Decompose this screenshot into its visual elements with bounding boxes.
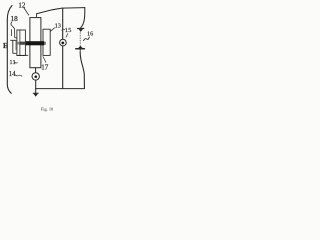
- label 13: [55, 22, 61, 29]
- label 17: [41, 64, 49, 72]
- wire below meter 15: [62, 46, 64, 89]
- svg-text:15: 15: [65, 27, 72, 34]
- wire stub upper-left of plates: [15, 29, 17, 38]
- leader line to 12: [24, 8, 29, 15]
- meter 15 needle: [61, 42, 64, 45]
- leader tilde to 14: [15, 75, 22, 77]
- ground arrow: [33, 94, 38, 97]
- label 16: [87, 31, 93, 38]
- brace (left figure bracket): [7, 6, 12, 94]
- svg-text:13: 13: [55, 22, 61, 29]
- label E: [3, 41, 8, 50]
- wire column to meter 14: [35, 68, 37, 73]
- svg-text:16: 16: [87, 31, 93, 38]
- label 11: [9, 59, 15, 66]
- leader line 15 to meter: [66, 34, 68, 38]
- meter 14 (circle): [32, 73, 39, 80]
- label 12: [18, 1, 26, 9]
- label 14: [9, 71, 16, 78]
- plate divider: [19, 30, 21, 56]
- leader line to 13: [51, 28, 55, 31]
- wire E lower lead: [13, 41, 16, 54]
- wire meter 14 down: [35, 80, 37, 93]
- spark gap top electrode bar: [78, 28, 84, 30]
- svg-text:12: 12: [18, 1, 26, 9]
- meter 15 (circle): [60, 39, 67, 46]
- wire top rail: [37, 8, 85, 14]
- leader line to 17: [43, 57, 46, 63]
- spark gap dotted gap: [79, 33, 81, 46]
- wire spark gap down: [80, 53, 84, 89]
- spark gap bottom electrode tip: [78, 46, 83, 48]
- band left nub: [18, 42, 22, 45]
- wire bottom rail: [36, 88, 85, 90]
- meter 14 needle: [35, 75, 38, 78]
- svg-text:Fig. 10: Fig. 10: [41, 107, 54, 112]
- electrode plates 18 (left stack): [17, 30, 26, 56]
- active band (dark element): [26, 41, 45, 45]
- wire E upper lead: [11, 39, 17, 41]
- leader tilde to 16: [83, 37, 89, 41]
- svg-text:17: 17: [41, 64, 49, 72]
- leader tilde to 11: [14, 62, 18, 63]
- ground bar: [33, 92, 38, 94]
- caption Fig. 10: [41, 107, 54, 112]
- spark gap bottom electrode bar: [76, 48, 85, 50]
- plate 13 (right): [43, 29, 50, 55]
- wire branch to spark gap: [81, 8, 85, 28]
- leader line to 18 (wavy): [11, 22, 14, 29]
- svg-text:E: E: [3, 41, 8, 50]
- label 15: [65, 27, 72, 34]
- wire column top riser: [36, 14, 38, 18]
- transducer column 12: [30, 18, 41, 68]
- leader tilde to 15: [62, 29, 65, 30]
- wire tick E terminal: [10, 30, 12, 36]
- spark gap stem: [79, 50, 81, 53]
- label 18: [11, 15, 19, 23]
- wire branch to meter 15: [62, 8, 64, 39]
- spark gap top electrode tip: [79, 29, 83, 32]
- wire inner lead: [15, 41, 17, 50]
